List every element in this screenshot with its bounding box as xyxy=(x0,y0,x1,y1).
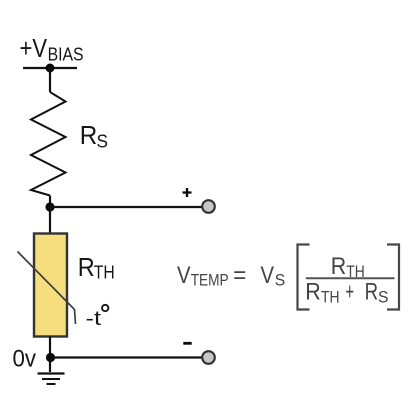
formula right bracket xyxy=(387,245,399,310)
resistor RS xyxy=(31,92,66,196)
svg-text:TEMP: TEMP xyxy=(191,272,229,290)
wire ground node to - terminal xyxy=(50,356,202,358)
wire node to RTH xyxy=(49,207,51,233)
formula VTEMP = VS [ RTH / (RTH+RS) ] xyxy=(177,245,399,310)
svg-text:S: S xyxy=(378,289,389,307)
junction dot ground node xyxy=(46,353,55,362)
svg-text:V: V xyxy=(177,262,191,289)
svg-text:BIAS: BIAS xyxy=(48,44,84,64)
terminal - output xyxy=(202,351,215,364)
terminal + output xyxy=(202,200,215,213)
svg-text:=: = xyxy=(233,262,246,289)
wire rail to RS xyxy=(49,68,51,92)
svg-text:0v: 0v xyxy=(13,346,37,373)
svg-text:S: S xyxy=(275,272,286,290)
wire RS to node xyxy=(49,196,51,208)
svg-text:V: V xyxy=(261,262,275,289)
node junction dot RS/RTH xyxy=(45,202,54,211)
label - xyxy=(183,342,191,345)
svg-text:R: R xyxy=(305,279,321,306)
wire RTH to ground node xyxy=(49,337,51,373)
label + xyxy=(183,188,192,197)
junction dot on VBIAS rail xyxy=(46,64,55,73)
svg-text:-t: -t xyxy=(86,307,102,330)
svg-text:+V: +V xyxy=(20,35,48,63)
formula left bracket xyxy=(298,245,310,310)
svg-text:+: + xyxy=(346,279,355,306)
power rail +VBIAS xyxy=(23,67,77,69)
svg-text:R: R xyxy=(331,253,347,280)
svg-text:TH: TH xyxy=(321,289,340,307)
svg-text:R: R xyxy=(80,122,98,150)
thermistor RTH body xyxy=(34,234,67,337)
wire node to + terminal xyxy=(50,206,202,208)
svg-text:TH: TH xyxy=(94,263,115,283)
svg-text:S: S xyxy=(97,132,109,152)
svg-text:R: R xyxy=(78,254,95,282)
svg-text:R: R xyxy=(365,279,379,306)
thermistor diagonal -t line xyxy=(18,252,76,325)
formula fraction bar xyxy=(306,277,395,279)
ground xyxy=(38,374,65,385)
